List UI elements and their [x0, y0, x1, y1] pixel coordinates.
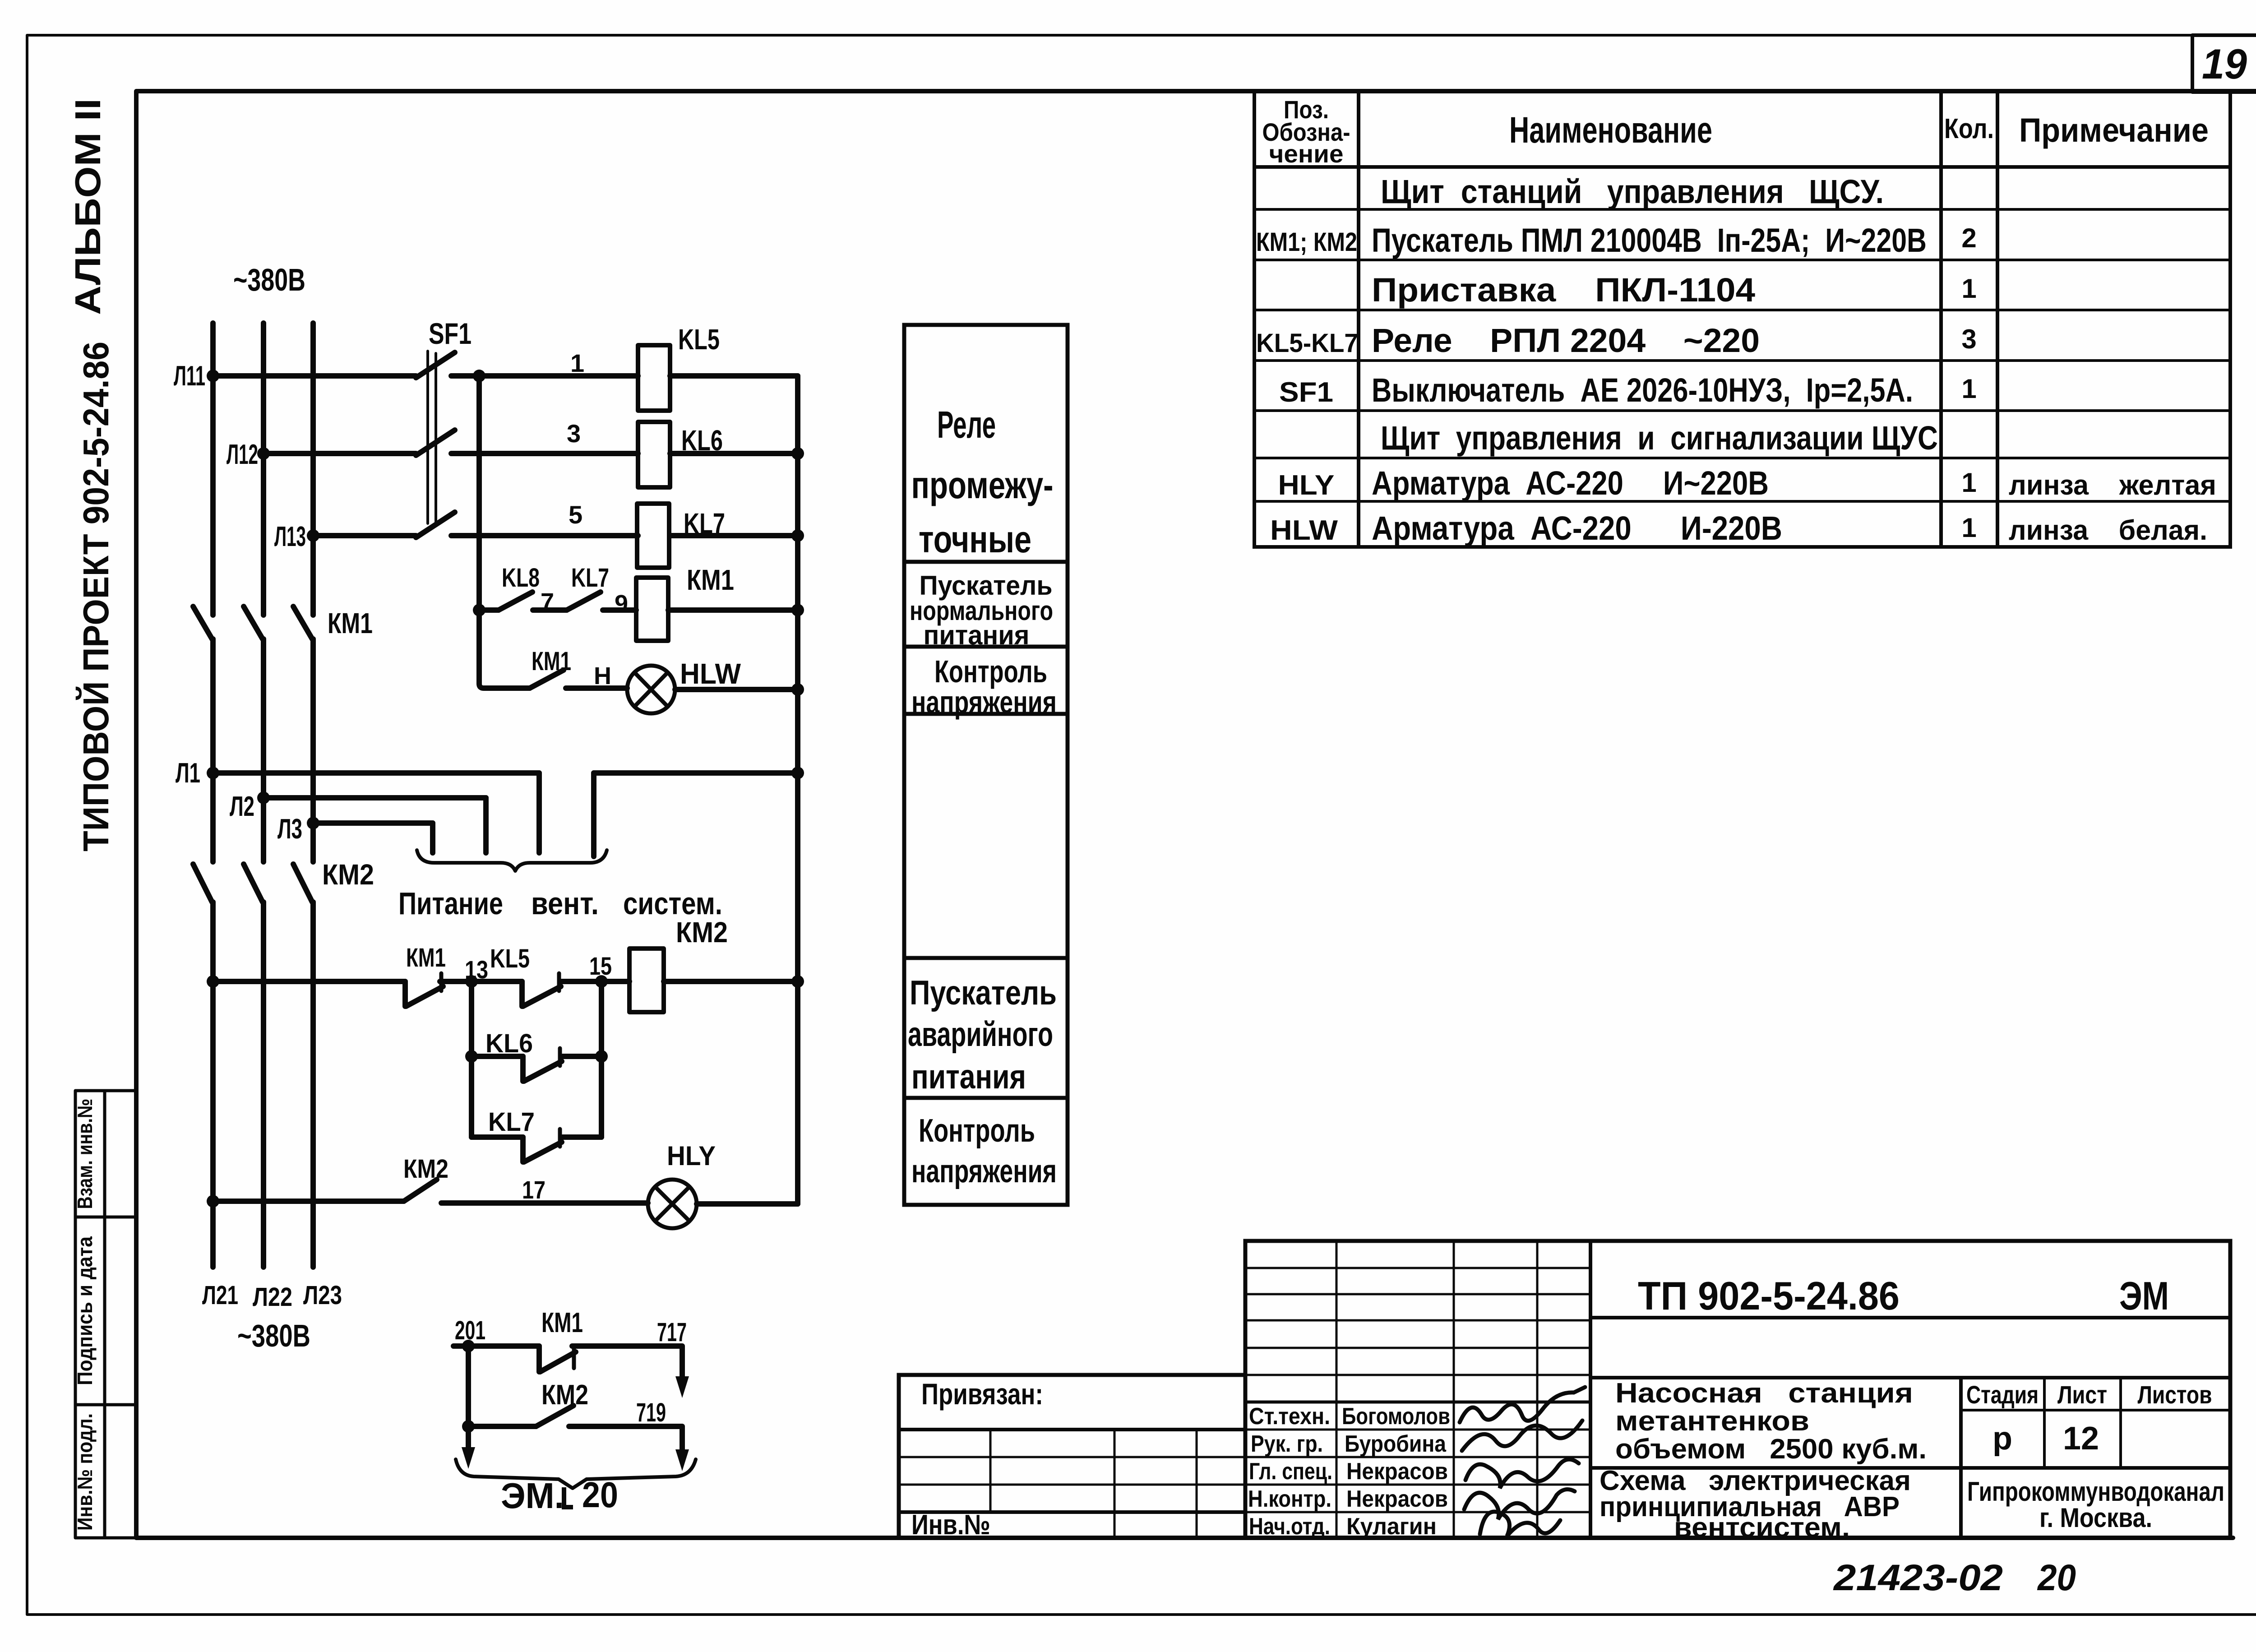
node 15 [595, 975, 608, 988]
aux contact KM2 blade [536, 1406, 573, 1426]
svg-text:HLW: HLW [1270, 515, 1338, 546]
small L mark in EM label [564, 1487, 573, 1507]
wire KM1 coil to right bus [668, 607, 798, 613]
contact KL7 blade [567, 592, 601, 610]
wire KL6 branch left [472, 1054, 523, 1059]
svg-text:Лист: Лист [2057, 1380, 2107, 1409]
contact KL5 step [519, 981, 525, 1006]
svg-text:13: 13 [465, 955, 488, 984]
svg-text:KL7: KL7 [488, 1107, 535, 1137]
wire between KL8 and KL7 contacts [533, 607, 567, 613]
node lower rung tap [207, 975, 219, 988]
aux contact KM1 NC step [536, 1346, 542, 1372]
svg-text:напряжения: напряжения [911, 1153, 1057, 1189]
svg-text:Н: Н [594, 662, 611, 689]
wire lamp HLY to right bus [697, 1201, 798, 1207]
wire lower rung from bus to KM1 NC contact [213, 979, 405, 984]
breaker SF1 linkage bar [428, 351, 436, 523]
svg-text:Гипрокоммунводоканал: Гипрокоммунводоканал [1967, 1476, 2224, 1507]
aux vertical 201 down [466, 1346, 471, 1451]
wire node15 drop [599, 981, 604, 1137]
contactor KM1 main contact pole 1 [193, 606, 212, 639]
svg-text:Л1: Л1 [176, 758, 200, 789]
contactor KM2 main contact pole 3 [293, 864, 312, 902]
svg-text:3: 3 [1961, 324, 1976, 354]
svg-text:KL5: KL5 [678, 323, 720, 356]
inner frame bottom line [136, 1536, 2233, 1540]
sheet number box [2192, 35, 2256, 92]
svg-text:ЭМ: ЭМ [2119, 1273, 2169, 1318]
svg-text:Гл. спец.: Гл. спец. [1249, 1458, 1332, 1485]
node 13 KL6 branch [465, 1050, 478, 1063]
contactor KM2 main contact pole 1 [193, 864, 212, 902]
svg-text:1: 1 [1961, 273, 1976, 304]
wire L1 row [213, 770, 539, 776]
wire lamp HLW to right bus [675, 687, 798, 692]
circuit labels [174, 262, 741, 1516]
svg-text:Реле РПЛ 2204 ~220: Реле РПЛ 2204 ~220 [1372, 322, 1760, 359]
svg-text:5: 5 [569, 500, 582, 529]
svg-text:Щит станций управления ЩС: Щит станций управления ЩСУ. [1381, 173, 1884, 210]
svg-text:Стадия: Стадия [1966, 1380, 2039, 1409]
svg-text:Рук. гр.: Рук. гр. [1251, 1431, 1323, 1457]
svg-text:Нач.отд.: Нач.отд. [1249, 1513, 1330, 1540]
arrowhead wire 201 [462, 1447, 475, 1469]
svg-text:Л22: Л22 [253, 1282, 292, 1312]
arrowhead wire 717 [675, 1376, 689, 1398]
svg-text:Реле: Реле [937, 403, 996, 446]
svg-text:питания: питания [924, 620, 1030, 650]
node L3 junction [307, 817, 319, 829]
bus L11 segment between KM1 and KM2 contacts [210, 639, 216, 862]
svg-text:КМ1: КМ1 [406, 943, 446, 972]
svg-text:KL6: KL6 [681, 424, 723, 457]
bus L13 phase 3 vertical [310, 323, 316, 615]
brace power to vent systems [417, 850, 607, 871]
svg-text:метантенков: метантенков [1615, 1406, 1809, 1437]
svg-text:KL8: KL8 [502, 563, 540, 592]
svg-text:~380В: ~380В [237, 1318, 310, 1353]
svg-text:р: р [1992, 1421, 2012, 1457]
contactor coil KM1 [636, 578, 668, 641]
svg-text:КМ2: КМ2 [676, 916, 728, 949]
svg-text:КМ1: КМ1 [328, 607, 373, 639]
svg-text:717: 717 [657, 1318, 687, 1347]
svg-text:промежу-: промежу- [911, 464, 1054, 506]
contact KL6 step [520, 1056, 526, 1081]
svg-text:КМ1: КМ1 [687, 564, 734, 596]
svg-text:аварийного: аварийного [908, 1015, 1053, 1054]
svg-text:19: 19 [2202, 40, 2247, 88]
bus L21 lower segment [210, 902, 216, 1267]
svg-text:~380В: ~380В [233, 262, 305, 297]
svg-text:Кол.: Кол. [1944, 113, 1994, 144]
svg-text:HLY: HLY [667, 1141, 716, 1171]
svg-text:21423-02: 21423-02 [1833, 1557, 2003, 1598]
svg-text:КМ1: КМ1 [541, 1307, 583, 1338]
svg-text:точные: точные [919, 518, 1031, 560]
contact KL8 blade [499, 592, 532, 610]
svg-text:питания: питания [911, 1058, 1026, 1096]
lamp HLY [648, 1180, 697, 1228]
svg-text:Пускатель ПМЛ 210004В Iп-25А;: Пускатель ПМЛ 210004В Iп-25А; И~220В [1372, 222, 1927, 259]
svg-text:КМ2: КМ2 [322, 858, 374, 891]
svg-text:КМ1: КМ1 [532, 647, 571, 676]
node right bus HLW row [791, 683, 804, 696]
svg-text:объемом 2500 куб.м.: объемом 2500 куб.м. [1615, 1434, 1927, 1465]
svg-text:КМ2: КМ2 [403, 1154, 448, 1184]
svg-text:Примечание: Примечание [2019, 111, 2209, 149]
svg-text:1: 1 [1961, 374, 1976, 404]
svg-text:Л3: Л3 [277, 814, 302, 845]
svg-text:Богомолов: Богомолов [1342, 1403, 1450, 1430]
wire KL8 row from feeder [479, 607, 499, 613]
svg-text:Л2: Л2 [230, 791, 254, 822]
svg-text:Кулагин: Кулагин [1346, 1513, 1437, 1540]
svg-text:Л21: Л21 [202, 1281, 238, 1310]
svg-text:201: 201 [455, 1316, 485, 1345]
feeder wire down from row 1 [479, 376, 530, 688]
wire L2 row [264, 795, 486, 801]
svg-text:SF1: SF1 [1279, 377, 1333, 408]
node right bus row 3 [791, 447, 804, 460]
node L2 junction [257, 791, 270, 804]
svg-text:Привязан:: Привязан: [921, 1377, 1043, 1411]
svg-text:HLW: HLW [680, 657, 741, 690]
relay coil KL6 [638, 422, 670, 487]
node feeder tap KL8 row [473, 604, 485, 616]
svg-text:Взам. инв.№: Взам. инв.№ [73, 1099, 97, 1209]
svg-text:KL7: KL7 [571, 563, 609, 592]
contact KM1 NC step [402, 981, 408, 1006]
bus L12 phase 2 vertical [261, 323, 266, 615]
svg-text:KL5: KL5 [490, 944, 530, 973]
stub L2 down to brace [483, 798, 489, 853]
contactor KM2 main contact pole 2 [244, 864, 263, 902]
contact KL5 tick [557, 973, 561, 991]
svg-text:ТП 902-5-24.86: ТП 902-5-24.86 [1638, 1273, 1900, 1318]
svg-text:Контроль: Контроль [934, 654, 1047, 689]
svg-text:Питание: Питание [398, 886, 503, 921]
svg-text:Наименование: Наименование [1509, 110, 1712, 151]
bus L23 lower segment [310, 902, 316, 1267]
svg-text:АЛЬБОМ II: АЛЬБОМ II [68, 98, 108, 315]
wire L13 row to SF1 [313, 533, 416, 538]
aux contact KM1 NC tick [572, 1348, 576, 1368]
node right bus KM1 coil row [791, 604, 804, 616]
svg-text:17: 17 [522, 1175, 546, 1204]
contact KL7 branch blade [524, 1142, 562, 1162]
node L13 junction [307, 529, 319, 542]
wire row 3 after SF1 [451, 451, 638, 456]
contact KM2 aux blade [404, 1180, 437, 1201]
svg-text:Инв.№ подл.: Инв.№ подл. [73, 1413, 97, 1531]
svg-text:вентсистем.: вентсистем. [1674, 1512, 1850, 1543]
wire control return row [594, 770, 798, 776]
wire row 5 coil to right bus [670, 533, 798, 538]
contact KL6 tick [558, 1048, 562, 1066]
svg-text:Л11: Л11 [174, 361, 205, 392]
node KM2 aux row tap [207, 1195, 219, 1208]
breaker SF1 blade pole 3 [416, 512, 455, 537]
contact KM1 NC tick [439, 973, 444, 991]
contact KL7 branch step [520, 1137, 526, 1162]
svg-text:линза желтая: линза желтая [2009, 470, 2216, 501]
svg-text:2: 2 [1961, 223, 1976, 253]
svg-text:Некрасов: Некрасов [1346, 1486, 1448, 1512]
relay coil KL5 [638, 345, 670, 411]
svg-text:Н.контр.: Н.контр. [1248, 1486, 1331, 1512]
svg-text:Щит управления и сигнализац: Щит управления и сигнализации ЩУС [1381, 419, 1938, 457]
wire KM2 coil to right bus [664, 979, 798, 984]
stub L3 down to brace [430, 823, 435, 853]
svg-text:20: 20 [582, 1475, 618, 1515]
svg-text:719: 719 [636, 1398, 666, 1427]
contact KL5 blade [523, 986, 561, 1006]
breaker SF1 blade pole 2 [416, 430, 455, 455]
wire row 1 after SF1 [451, 373, 638, 379]
aux brace EM [456, 1459, 696, 1488]
svg-text:15: 15 [589, 952, 612, 980]
svg-text:КМ2: КМ2 [541, 1379, 588, 1411]
aux diagram wire 201 terminal [453, 1343, 539, 1349]
contactor KM1 main contact pole 2 [244, 606, 263, 639]
bus L11 phase 1 vertical [210, 323, 216, 615]
node 201 junction [462, 1340, 475, 1352]
svg-text:Приставка ПКЛ-1104: Приставка ПКЛ-1104 [1372, 271, 1755, 309]
wire L11 row to SF1 [213, 373, 416, 379]
signatures scribbles [1460, 1387, 1585, 1536]
svg-text:КМ1; КМ2: КМ1; КМ2 [1256, 227, 1357, 257]
wire KM2 aux row from bus [213, 1199, 404, 1204]
svg-text:г. Москва.: г. Москва. [2039, 1503, 2152, 1533]
svg-text:Ст.техн.: Ст.техн. [1249, 1403, 1330, 1430]
svg-text:1: 1 [570, 349, 584, 377]
arrowhead wire 719 [675, 1449, 689, 1471]
svg-text:напряжения: напряжения [911, 685, 1057, 720]
node right bus row 5 [791, 529, 804, 542]
wire KL7 branch right [563, 1134, 601, 1140]
node 13 [465, 975, 478, 988]
svg-text:KL6: KL6 [485, 1029, 533, 1058]
svg-text:Насосная станция: Насосная станция [1615, 1378, 1913, 1409]
svg-text:Контроль: Контроль [919, 1113, 1035, 1149]
node right bus KM2 coil row [791, 975, 804, 988]
stub control return down to brace [591, 773, 596, 856]
wire KL7 contact to KM1 coil [603, 607, 636, 613]
svg-text:ЭМ.: ЭМ. [501, 1476, 564, 1516]
wire row 5 after SF1 [451, 533, 638, 538]
svg-text:ТИПОВОЙ ПРОЕКТ 902-5-24.86: ТИПОВОЙ ПРОЕКТ 902-5-24.86 [75, 342, 116, 851]
node L11 junction [207, 370, 219, 382]
svg-text:Инв.№: Инв.№ [911, 1509, 990, 1541]
stub L1 down to brace [536, 773, 542, 853]
svg-text:1: 1 [1961, 513, 1976, 543]
aux wire 717 [572, 1346, 682, 1381]
svg-text:Арматура АС-220 И~220В: Арматура АС-220 И~220В [1372, 464, 1769, 502]
svg-text:9: 9 [615, 590, 628, 617]
svg-text:Листов: Листов [2138, 1380, 2212, 1409]
lamp HLW [627, 666, 675, 713]
aux wire KM2 row [468, 1426, 682, 1452]
contactor KM1 main contact pole 3 [293, 606, 312, 639]
bus L12 middle segment [261, 639, 266, 862]
node right bus return row [791, 767, 804, 779]
aux contact KM1 NC blade [540, 1352, 576, 1372]
node feeder tap row 1 [473, 370, 485, 382]
right return bus vertical [795, 376, 800, 1204]
contact KM1 NC blade [406, 986, 443, 1006]
wire L12 row to SF1 [264, 451, 416, 456]
svg-text:3: 3 [567, 419, 581, 448]
node L1 junction [207, 767, 219, 779]
node 201 lower junction [462, 1420, 475, 1433]
svg-text:KL7: KL7 [684, 507, 725, 540]
contact KL6 blade [524, 1061, 562, 1081]
wire KL7 branch left [472, 1134, 523, 1140]
contact KL7 branch tick [558, 1129, 562, 1147]
svg-text:20: 20 [2037, 1557, 2076, 1598]
wire L3 row [313, 820, 433, 826]
svg-text:Выключатель АЕ 2026-10НУЗ, I: Выключатель АЕ 2026-10НУЗ, Iр=2,5А. [1372, 371, 1913, 409]
svg-text:SF1: SF1 [429, 317, 472, 350]
bus L13 middle segment [310, 639, 316, 862]
wire KM2 aux contact to lamp HLY [441, 1200, 648, 1206]
node 15 KL6 branch [595, 1050, 608, 1063]
svg-text:Буробина: Буробина [1345, 1431, 1447, 1457]
relay coil KL7 [637, 504, 669, 568]
svg-text:чение: чение [1269, 139, 1344, 168]
svg-text:вент.: вент. [531, 886, 599, 921]
wire row 1 coil to right bus [670, 373, 798, 379]
bus L22 lower segment [261, 902, 266, 1267]
svg-text:HLY: HLY [1278, 470, 1335, 501]
wire KM1 contact to lamp HLW [566, 685, 627, 691]
svg-text:Подпись и дата: Подпись и дата [73, 1236, 97, 1385]
wire node13 drop [469, 981, 474, 1137]
wire node15 to KM2 coil [562, 979, 629, 984]
svg-text:линза белая.: линза белая. [2009, 515, 2207, 546]
svg-text:Л13: Л13 [274, 521, 306, 552]
node L12 junction [257, 447, 270, 460]
contactor coil KM2 [629, 949, 664, 1012]
wire row 3 coil to right bus [670, 451, 798, 456]
svg-text:KL5-KL7: KL5-KL7 [1256, 329, 1358, 358]
svg-text:Арматура АС-220 И-220В: Арматура АС-220 И-220В [1372, 509, 1782, 547]
left margin stamp boxes column [75, 1091, 136, 1538]
svg-text:12: 12 [2063, 1421, 2099, 1457]
contact KM1 aux blade (lamp row) [530, 670, 564, 688]
svg-text:1: 1 [1961, 467, 1976, 498]
svg-text:Некрасов: Некрасов [1346, 1458, 1448, 1485]
svg-text:Л12: Л12 [227, 439, 258, 470]
svg-text:Л23: Л23 [303, 1281, 342, 1310]
wire KL6 branch right [563, 1054, 601, 1059]
breaker SF1 blade pole 1 [416, 352, 455, 378]
svg-text:7: 7 [541, 588, 554, 615]
wire node13 segment [440, 979, 522, 984]
svg-text:Пускатель: Пускатель [910, 974, 1057, 1012]
